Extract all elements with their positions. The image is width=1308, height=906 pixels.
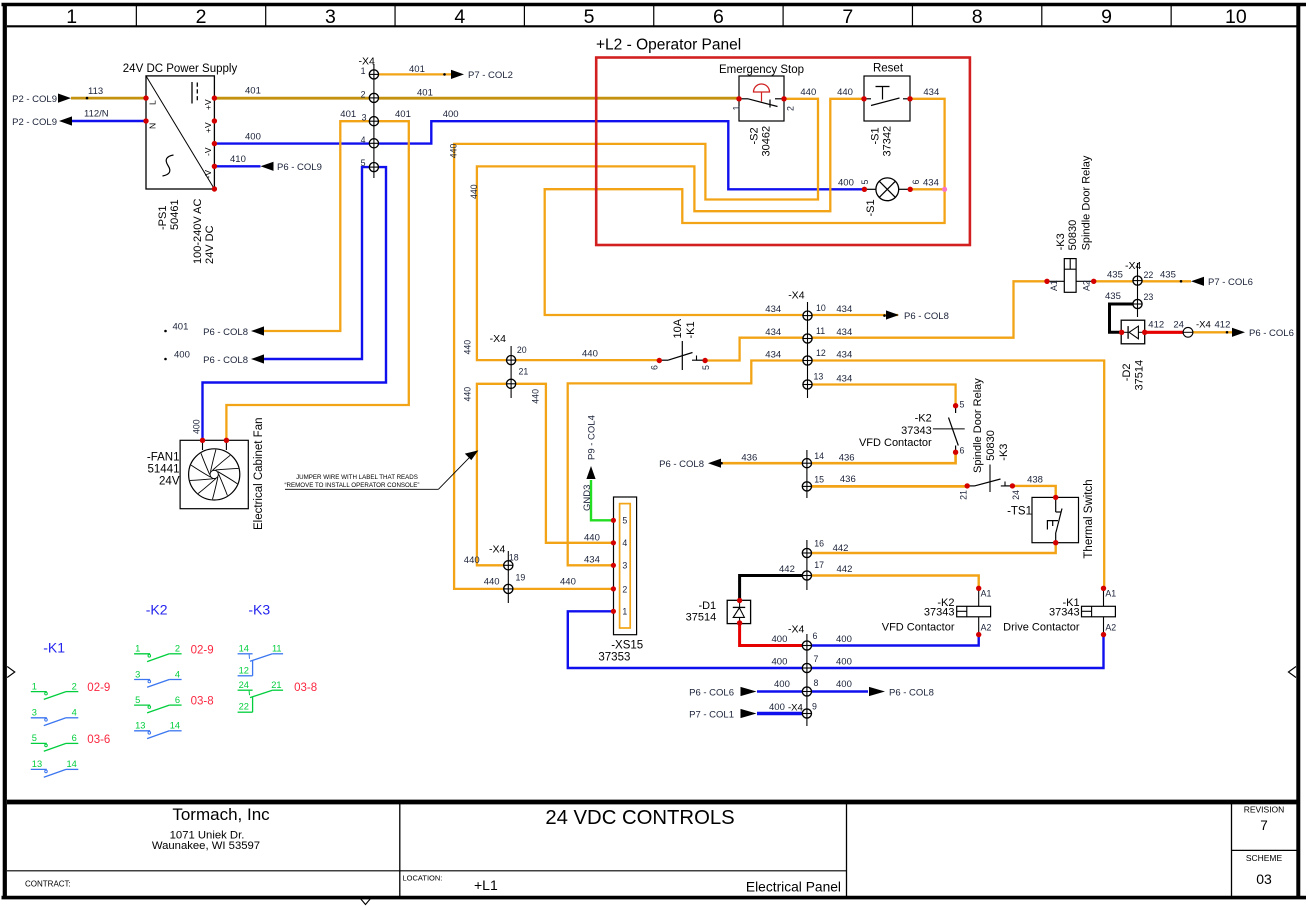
svg-text:6: 6 — [813, 631, 818, 641]
svg-text:440: 440 — [584, 533, 600, 544]
lamp S1 — [876, 178, 899, 201]
arrow P6-COL6 right — [1232, 328, 1245, 337]
K1 contact 5-6 — [31, 742, 47, 744]
wire 434 Reset pin4 junction to X4-10 row to P6-COL8 — [545, 99, 945, 315]
svg-text:14: 14 — [66, 759, 76, 769]
svg-text:-K3: -K3 — [1055, 233, 1067, 250]
svg-text:37514: 37514 — [1133, 360, 1145, 391]
arrow P2-COL9 out — [59, 116, 72, 125]
svg-text:23: 23 — [1144, 292, 1154, 302]
svg-text:442: 442 — [833, 543, 849, 554]
svg-text:-K3: -K3 — [998, 444, 1010, 461]
svg-text:Thermal Switch: Thermal Switch — [1083, 479, 1095, 558]
wire 435 K3 coil A2 to X4-22 to P7-COL6 — [1094, 280, 1191, 282]
svg-text:400: 400 — [192, 419, 202, 434]
svg-text:4: 4 — [175, 669, 180, 679]
svg-text:10: 10 — [1225, 6, 1247, 28]
svg-text:5: 5 — [135, 695, 140, 705]
svg-text:1: 1 — [732, 106, 742, 111]
svg-text:Spindle Door Relay: Spindle Door Relay — [972, 378, 984, 473]
wire 401 X4-3 left to P6-COL8 — [263, 121, 374, 331]
svg-text:Drive Contactor: Drive Contactor — [1003, 622, 1080, 634]
svg-text:6: 6 — [960, 446, 965, 456]
svg-text:2: 2 — [622, 584, 627, 594]
svg-text:6: 6 — [650, 365, 660, 370]
svg-text:434: 434 — [765, 350, 781, 361]
terminal strip X4 16-17 — [806, 540, 808, 590]
svg-text:440: 440 — [469, 184, 479, 199]
svg-text:37343: 37343 — [901, 425, 932, 437]
svg-text:434: 434 — [836, 304, 852, 315]
wire 400 X4-8 row — [757, 690, 868, 692]
svg-text:P7 - COL1: P7 - COL1 — [689, 709, 734, 720]
wire 401 X4-3 right to fan — [226, 121, 408, 440]
svg-text:401: 401 — [173, 322, 189, 333]
svg-text:9: 9 — [1101, 6, 1112, 28]
svg-text:19: 19 — [516, 572, 526, 582]
svg-text:13: 13 — [135, 721, 145, 731]
svg-text:50830: 50830 — [985, 430, 997, 461]
svg-text:7: 7 — [814, 654, 819, 664]
svg-text:+L1: +L1 — [474, 877, 498, 893]
svg-text:-TS1: -TS1 — [1007, 506, 1032, 518]
wire 412 D2 to X4-24 red — [1145, 331, 1184, 334]
svg-text:440: 440 — [484, 577, 500, 588]
svg-text:10: 10 — [816, 303, 826, 313]
svg-text:51441: 51441 — [148, 464, 180, 476]
svg-text:440: 440 — [582, 349, 598, 360]
svg-text:LOCATION:: LOCATION: — [403, 874, 443, 883]
arrow P6-COL8 row8 — [869, 687, 885, 696]
svg-text:24V DC: 24V DC — [204, 225, 216, 264]
terminal strip X4 6-9 — [806, 634, 808, 726]
svg-text:-X4: -X4 — [788, 624, 805, 636]
svg-text:13: 13 — [32, 759, 42, 769]
arrow P7-COL1 row9 — [741, 709, 757, 718]
terminal strip X4 14-15 — [806, 450, 808, 498]
svg-text:1: 1 — [32, 681, 37, 691]
terminal strip X4 20-21 — [510, 346, 512, 398]
svg-text:-X4: -X4 — [1196, 320, 1211, 331]
svg-text:P2 - COL9: P2 - COL9 — [12, 117, 57, 128]
svg-text:03: 03 — [1256, 871, 1272, 887]
svg-text:20: 20 — [517, 345, 527, 355]
svg-text:A1: A1 — [1105, 589, 1116, 599]
svg-text:24V DC Power Supply: 24V DC Power Supply — [123, 63, 238, 75]
svg-text:P6 - COL6: P6 - COL6 — [689, 687, 734, 698]
svg-text:434: 434 — [923, 87, 939, 98]
svg-text:P6 - COL9: P6 - COL9 — [277, 162, 322, 173]
svg-text:Tormach, Inc: Tormach, Inc — [172, 805, 270, 824]
K1 contact 1-2 — [31, 691, 47, 693]
svg-text:VFD Contactor: VFD Contactor — [882, 622, 955, 634]
svg-text:10A: 10A — [672, 318, 684, 338]
emergency stop switch S2 — [739, 76, 784, 121]
svg-text:P2 - COL9: P2 - COL9 — [12, 94, 57, 105]
svg-text:412: 412 — [1215, 320, 1231, 331]
K1 contact 13-14 — [31, 768, 47, 770]
svg-text:400: 400 — [174, 350, 190, 361]
svg-text:37342: 37342 — [882, 126, 894, 157]
svg-text:P9 - COL4: P9 - COL4 — [587, 415, 598, 460]
arrow P7-COL6 — [1191, 277, 1204, 286]
svg-text:401: 401 — [340, 109, 356, 120]
svg-text:400: 400 — [245, 132, 261, 143]
K3 changeover 14-11-12 — [238, 653, 253, 655]
wire 434 lamp pin6 stub — [910, 188, 944, 190]
diode D2 — [1121, 320, 1145, 344]
svg-text:P6 - COL8: P6 - COL8 — [203, 355, 248, 366]
svg-text:02-9: 02-9 — [191, 644, 214, 656]
wire 438 K3 contact pin24 to TS1 — [1012, 486, 1055, 498]
relay coil K3 — [1064, 259, 1076, 293]
arrow P6-COL8 row10 — [886, 310, 899, 319]
svg-text:-S2: -S2 — [749, 127, 761, 144]
svg-text:A2: A2 — [1082, 280, 1092, 291]
svg-text:-K2: -K2 — [146, 602, 168, 618]
svg-text:P7 - COL6: P7 - COL6 — [1208, 277, 1253, 288]
svg-text:5: 5 — [584, 6, 595, 28]
svg-text:22: 22 — [1144, 270, 1154, 280]
arrow P6-COL6 row8 — [741, 687, 757, 696]
svg-text:Electrical Cabinet Fan: Electrical Cabinet Fan — [253, 418, 265, 531]
svg-text:VFD Contactor: VFD Contactor — [859, 437, 932, 449]
svg-text:3: 3 — [135, 669, 140, 679]
svg-text:-V: -V — [203, 147, 213, 156]
fan FAN1 — [180, 440, 248, 508]
svg-text:22: 22 — [239, 702, 249, 712]
svg-text:5: 5 — [622, 516, 627, 526]
arrow P7-COL2 — [451, 70, 464, 79]
svg-text:3: 3 — [32, 708, 37, 718]
wire GND3 XS15 pin5 to P9-COL4 — [591, 480, 613, 520]
svg-text:440: 440 — [837, 87, 853, 98]
svg-text:14: 14 — [170, 721, 180, 731]
svg-text:400: 400 — [836, 657, 852, 668]
svg-text:JUMPER WIRE WITH LABEL THAT RE: JUMPER WIRE WITH LABEL THAT READS — [296, 474, 418, 481]
svg-text:16: 16 — [814, 538, 824, 548]
svg-text:-X4: -X4 — [1125, 260, 1142, 272]
svg-text:435: 435 — [1107, 270, 1123, 281]
svg-text:440: 440 — [530, 389, 540, 404]
svg-text:21: 21 — [271, 680, 281, 690]
svg-text:410: 410 — [230, 154, 246, 165]
wire 400 X4-5 to P6-COL8 and fan — [203, 167, 387, 440]
svg-text:+V: +V — [203, 99, 213, 110]
svg-text:2: 2 — [175, 644, 180, 654]
svg-text:442: 442 — [779, 564, 795, 575]
svg-text:P6 - COL8: P6 - COL8 — [889, 687, 934, 698]
relay coil K1 — [1082, 606, 1116, 617]
svg-text:6: 6 — [713, 6, 724, 28]
svg-text:401: 401 — [417, 88, 433, 99]
svg-text:4: 4 — [622, 538, 627, 548]
svg-text:412: 412 — [1148, 320, 1164, 331]
wire 400 PSU -V to X4-4 to lamp pin5 — [214, 121, 864, 189]
svg-text:-D2: -D2 — [1121, 363, 1133, 381]
svg-text:8: 8 — [972, 6, 983, 28]
svg-text:434: 434 — [923, 178, 939, 189]
svg-text:440: 440 — [449, 144, 459, 159]
wire 410 PSU -V to P6-COL9 — [214, 165, 260, 167]
svg-text:-K3: -K3 — [248, 602, 270, 618]
wire 401 X4-1 to P7-COL2 — [374, 73, 451, 75]
svg-text:50830: 50830 — [1067, 220, 1079, 251]
svg-text:A1: A1 — [981, 589, 992, 599]
svg-text:4: 4 — [361, 135, 366, 145]
svg-text:7: 7 — [842, 6, 853, 28]
svg-text:Electrical Panel: Electrical Panel — [746, 880, 841, 895]
svg-text:-X4: -X4 — [788, 703, 803, 714]
K2 contact 13-14 — [134, 730, 150, 732]
svg-text:+L2 - Operator Panel: +L2 - Operator Panel — [596, 37, 741, 54]
svg-text:21: 21 — [519, 367, 529, 377]
svg-text:Emergency Stop: Emergency Stop — [719, 64, 804, 76]
terminal strip X4 1-5 — [373, 64, 375, 178]
wire 440 E-stop pin2 to X4-19 to XS15 pin2 — [454, 99, 818, 589]
svg-text:30462: 30462 — [761, 126, 773, 157]
power supply PS1 — [146, 76, 214, 189]
svg-text:37514: 37514 — [686, 612, 717, 624]
svg-text:400: 400 — [836, 679, 852, 690]
svg-text:434: 434 — [765, 304, 781, 315]
svg-text:400: 400 — [772, 657, 788, 668]
K2 contact 5-6 — [134, 704, 150, 706]
svg-text:14: 14 — [239, 644, 249, 654]
svg-text:400: 400 — [774, 679, 790, 690]
svg-text:6: 6 — [175, 695, 180, 705]
wire 400 X4-9 row thick — [757, 712, 807, 715]
wire 435 X4-23 black to D2 — [1110, 304, 1138, 332]
svg-text:2: 2 — [361, 90, 366, 100]
svg-text:434: 434 — [836, 374, 852, 385]
svg-text:03-6: 03-6 — [87, 734, 110, 746]
svg-text:8: 8 — [814, 678, 819, 688]
svg-text:18: 18 — [509, 553, 519, 563]
connector XS15 — [614, 497, 637, 635]
svg-text:1: 1 — [135, 644, 140, 654]
svg-text:2: 2 — [786, 106, 796, 111]
reset switch S1 — [864, 76, 910, 121]
wire 400 K1 coil A2 to X4-7 row to XS15 pin1 — [568, 611, 1104, 668]
fuse switch K1 10A — [659, 359, 668, 361]
tiny wire end dots — [443, 73, 446, 76]
svg-text:440: 440 — [463, 340, 473, 355]
svg-text:5: 5 — [860, 180, 870, 185]
svg-text:9: 9 — [812, 702, 817, 712]
thermal switch TS1 — [1032, 497, 1079, 542]
svg-text:15: 15 — [814, 475, 824, 485]
svg-text:-PS1: -PS1 — [157, 206, 169, 230]
svg-text:434: 434 — [836, 350, 852, 361]
svg-text:2: 2 — [196, 6, 207, 28]
svg-text:440: 440 — [464, 555, 480, 566]
svg-text:7: 7 — [1260, 818, 1268, 833]
wire 434 K1 pin5 to X4-11 row to K3 coil A1 — [705, 281, 1047, 360]
relay contact K3 spindle door — [967, 485, 974, 487]
terminal strip X4 10-13 — [807, 302, 809, 398]
svg-text:37343: 37343 — [1049, 606, 1080, 618]
svg-text:442: 442 — [837, 564, 853, 575]
svg-text:12: 12 — [239, 665, 249, 675]
svg-text:112/N: 112/N — [84, 109, 109, 120]
svg-text:-X4: -X4 — [489, 544, 506, 556]
svg-text:P6 - COL6: P6 - COL6 — [1249, 328, 1294, 339]
K2 contact 3-4 — [134, 679, 150, 681]
wire 112/N PSU N to P2-COL9 — [72, 120, 146, 122]
svg-text:400: 400 — [838, 178, 854, 189]
wire 401 PSU +V long to E-stop pin1 — [214, 97, 739, 100]
svg-text:4: 4 — [454, 6, 465, 28]
svg-text:11: 11 — [272, 644, 282, 654]
svg-text:-XS15: -XS15 — [611, 640, 643, 652]
svg-text:5: 5 — [32, 733, 37, 743]
svg-text:CONTRACT:: CONTRACT: — [25, 880, 71, 889]
wire 440 X4-21 X4-18 jumper net — [477, 384, 614, 566]
svg-text:400: 400 — [836, 634, 852, 645]
svg-text:400: 400 — [772, 634, 788, 645]
terminal strip X4 18-19 — [507, 551, 509, 603]
svg-text:100-240V AC: 100-240V AC — [192, 199, 204, 264]
arrow P6-COL8 401 — [251, 326, 264, 335]
svg-text:400: 400 — [769, 702, 785, 713]
svg-text:37343: 37343 — [924, 606, 955, 618]
svg-text:436: 436 — [741, 453, 757, 464]
svg-text:A2: A2 — [1105, 623, 1116, 633]
svg-text:3: 3 — [362, 113, 367, 123]
svg-text:5: 5 — [701, 365, 711, 370]
title block — [7, 800, 1297, 805]
wire 442 X4-17 left black to D1 — [740, 576, 807, 601]
svg-text:-K2: -K2 — [915, 413, 932, 425]
svg-text:24: 24 — [1173, 320, 1184, 331]
svg-text:GND3: GND3 — [582, 485, 593, 511]
svg-text:-S1: -S1 — [870, 127, 882, 144]
svg-text:435: 435 — [1105, 291, 1121, 302]
svg-text:03-8: 03-8 — [191, 696, 214, 708]
svg-text:24 VDC CONTROLS: 24 VDC CONTROLS — [545, 807, 734, 829]
wire 436 K2 contact pin6 to X4-14 row to P6-COL8 — [723, 452, 956, 463]
terminal strip X4 22-23 — [1137, 263, 1139, 317]
relay contact K2 VFD Contactor — [955, 406, 957, 413]
svg-text:L: L — [148, 100, 158, 105]
svg-text:6: 6 — [911, 180, 921, 185]
svg-text:50461: 50461 — [169, 199, 181, 230]
svg-text:11: 11 — [816, 326, 825, 336]
terminal X4-24 — [1183, 327, 1193, 337]
svg-text:24: 24 — [1011, 490, 1021, 500]
arrow P6-COL8 row14 — [708, 459, 721, 468]
svg-text:434: 434 — [836, 327, 852, 338]
svg-text:1: 1 — [622, 607, 627, 617]
svg-text:3: 3 — [622, 561, 627, 571]
svg-text:13: 13 — [814, 372, 824, 382]
svg-text:-X4: -X4 — [788, 290, 805, 302]
svg-text:2: 2 — [72, 681, 77, 691]
svg-text:02-9: 02-9 — [87, 682, 110, 694]
svg-text:434: 434 — [584, 555, 600, 566]
wire 434 XS15 pin3 up to X4-12 row to K1 coil A1 — [568, 361, 1104, 589]
svg-text:+V: +V — [203, 122, 213, 133]
svg-text:Spindle Door Relay: Spindle Door Relay — [1080, 155, 1092, 250]
svg-text:A2: A2 — [981, 623, 992, 633]
svg-text:440: 440 — [560, 577, 576, 588]
wire 440 Reset pin3 to X4-20 to K1 pin6 — [477, 99, 864, 360]
wire 400 D1 to X4-6 red — [740, 623, 807, 646]
svg-text:N: N — [148, 123, 158, 129]
svg-text:1: 1 — [361, 66, 366, 76]
svg-text:434: 434 — [765, 327, 781, 338]
arrow P9-COL4 up — [586, 466, 595, 479]
wire 412 X4-24 to P6-COL6 — [1193, 331, 1233, 333]
svg-text:-V: -V — [203, 170, 213, 179]
K3 changeover 24-21-22 — [238, 689, 253, 691]
svg-text:436: 436 — [839, 453, 855, 464]
svg-text:Reset: Reset — [873, 63, 904, 75]
svg-text:P6 - COL8: P6 - COL8 — [203, 327, 248, 338]
svg-text:3: 3 — [325, 6, 336, 28]
svg-text:17: 17 — [814, 560, 824, 570]
K2 contact 1-2 — [134, 653, 150, 655]
diode D1 — [727, 600, 750, 623]
svg-text:401: 401 — [409, 64, 425, 75]
K1 contact 3-4 — [31, 717, 47, 719]
svg-text:440: 440 — [800, 87, 816, 98]
wire 436 X4-15 to K3 contact pin21 — [807, 485, 967, 488]
svg-text:24: 24 — [239, 680, 249, 690]
svg-text:-D1: -D1 — [698, 600, 716, 612]
svg-text:P7 - COL2: P7 - COL2 — [468, 70, 513, 81]
svg-text:P6 - COL8: P6 - COL8 — [659, 459, 704, 470]
svg-text:-S1: -S1 — [865, 199, 877, 216]
svg-text:113: 113 — [88, 86, 103, 97]
relay coil K2 — [957, 606, 991, 617]
svg-text:401: 401 — [245, 86, 261, 97]
wire 113 P2-COL9 to PSU L — [71, 97, 146, 100]
operator panel L2 box — [596, 58, 970, 246]
svg-text:-K1: -K1 — [43, 640, 65, 656]
svg-text:-K1: -K1 — [685, 321, 697, 338]
svg-text:4: 4 — [72, 708, 77, 718]
svg-text:438: 438 — [1027, 475, 1043, 486]
svg-text:435: 435 — [1160, 270, 1176, 281]
wire 442 TS1 to X4-16 — [807, 543, 1056, 553]
svg-text:440: 440 — [463, 387, 473, 402]
svg-text:REVISION: REVISION — [1244, 805, 1285, 815]
wire 400 X4-6 to K2 coil A2 — [807, 635, 979, 646]
svg-text:5: 5 — [960, 400, 965, 410]
svg-text:14: 14 — [814, 451, 824, 461]
arrow P2-COL9 in — [58, 94, 71, 103]
svg-text:436: 436 — [840, 474, 856, 485]
svg-text:6: 6 — [72, 733, 77, 743]
border frame — [2, 3, 1307, 6]
svg-text:24V: 24V — [159, 475, 180, 487]
svg-text:-X4: -X4 — [490, 333, 507, 345]
svg-text:P6 - COL8: P6 - COL8 — [904, 311, 949, 322]
svg-text:A1: A1 — [1049, 280, 1059, 291]
arrow P6-COL8 400 — [251, 354, 264, 363]
svg-text:37353: 37353 — [598, 651, 630, 663]
wire 434 X4-13 to K2 contact pin5 — [808, 385, 956, 406]
svg-text:1: 1 — [66, 6, 77, 28]
arrow P6-COL9 — [261, 162, 274, 171]
svg-text:400: 400 — [443, 109, 459, 120]
svg-text:-FAN1: -FAN1 — [147, 452, 180, 464]
svg-text:5: 5 — [361, 158, 366, 168]
svg-text:Waunakee, WI 53597: Waunakee, WI 53597 — [152, 840, 260, 852]
svg-text:“REMOVE TO INSTALL OPERATOR CO: “REMOVE TO INSTALL OPERATOR CONSOLE” — [284, 482, 419, 489]
